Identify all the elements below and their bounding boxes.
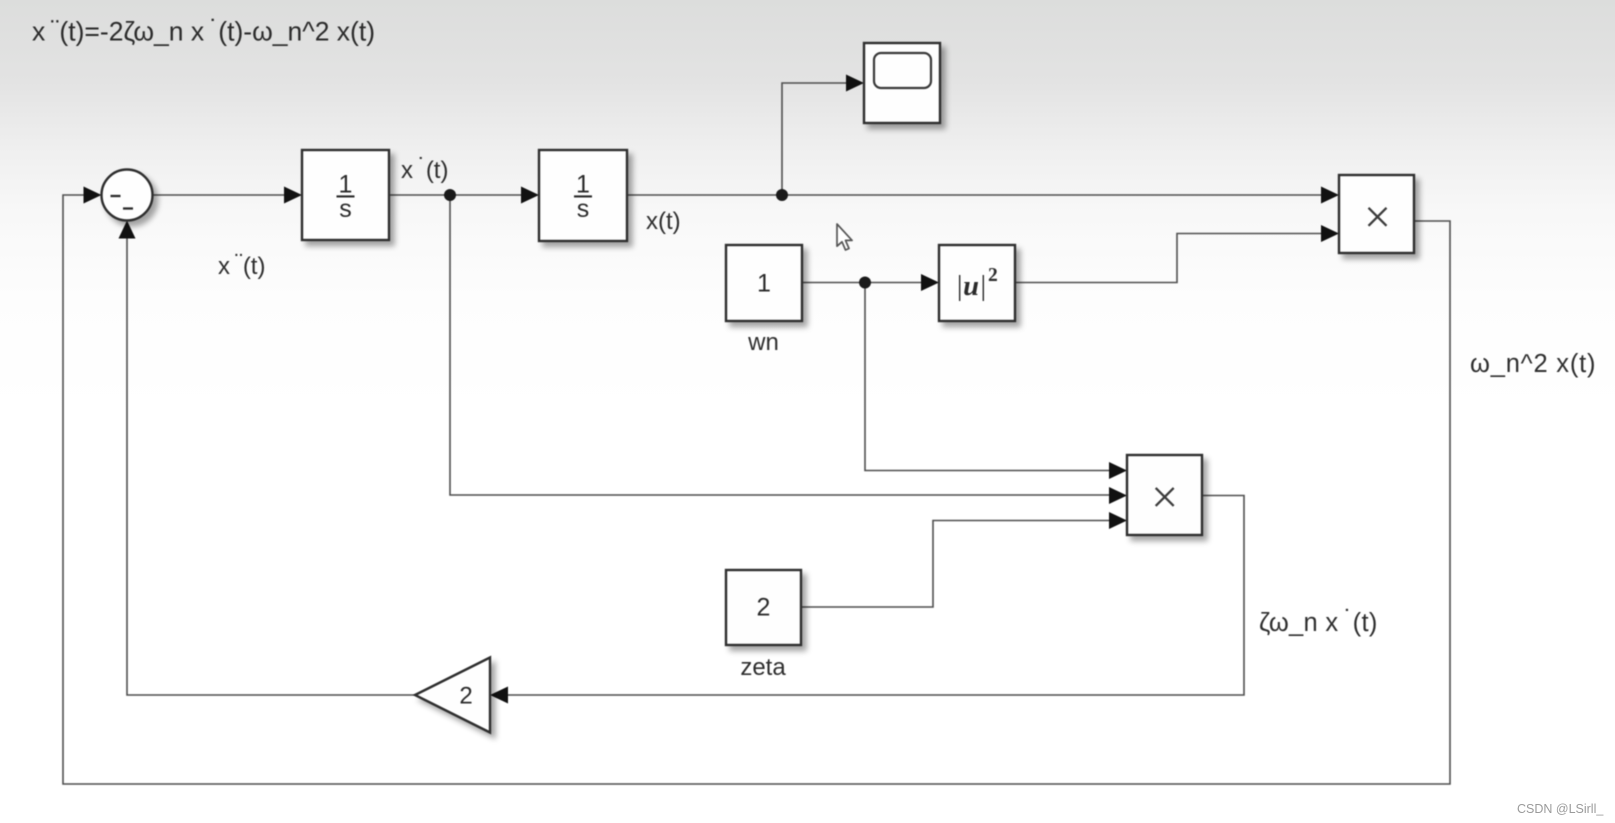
svg-text:x ˙(t): x ˙(t) xyxy=(401,154,448,185)
svg-text:1: 1 xyxy=(757,270,771,298)
svg-text:ω_n^2 x(t): ω_n^2 x(t) xyxy=(1470,350,1596,378)
svg-text:x ¨(t)=-2ζω_n x ˙(t)-ω_n^2 x(t: x ¨(t)=-2ζω_n x ˙(t)-ω_n^2 x(t) xyxy=(32,15,375,47)
svg-text:2: 2 xyxy=(988,265,998,286)
svg-text:|u|: |u| xyxy=(955,271,987,302)
svg-text:x ¨(t): x ¨(t) xyxy=(218,250,265,281)
svg-text:ζω_n x ˙(t): ζω_n x ˙(t) xyxy=(1259,606,1378,638)
svg-text:x(t): x(t) xyxy=(646,208,681,235)
svg-text:wn: wn xyxy=(747,329,779,356)
svg-text:CSDN @LSirll_: CSDN @LSirll_ xyxy=(1517,802,1604,816)
svg-text:2: 2 xyxy=(757,594,771,622)
svg-text:2: 2 xyxy=(459,683,472,710)
svg-text:s: s xyxy=(577,195,590,223)
svg-text:zeta: zeta xyxy=(740,654,786,681)
svg-text:s: s xyxy=(339,195,352,223)
